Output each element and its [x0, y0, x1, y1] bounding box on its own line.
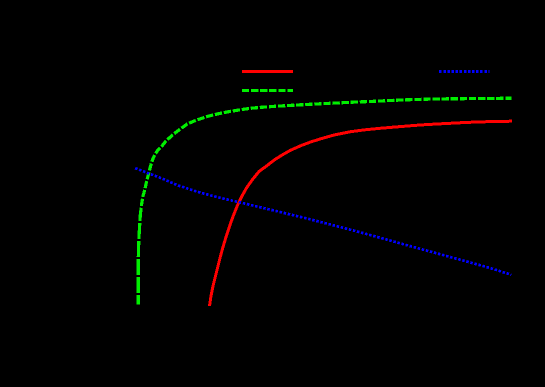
legend sample: blue dotted line: [439, 70, 490, 73]
blue curve: [135, 168, 511, 275]
legend sample: green dashed line: [242, 89, 293, 92]
legend sample: red solid line: [242, 70, 293, 73]
red curve: [210, 121, 512, 306]
green curve steep section: [138, 215, 140, 305]
green curve: [140, 98, 511, 215]
